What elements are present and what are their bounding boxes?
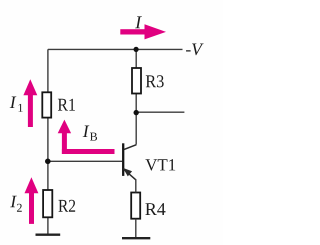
- node top supply junction: [134, 47, 139, 52]
- label VT1: [145, 159, 175, 170]
- label R4: [145, 203, 165, 215]
- power rail label -V: [186, 44, 204, 56]
- wire R3 branch vertical: [135, 49, 137, 144]
- label I: [135, 16, 142, 28]
- node collector junction: [134, 110, 139, 115]
- wire base lead: [48, 160, 122, 162]
- current arrow IB: [58, 120, 115, 154]
- wire collector output: [136, 111, 184, 113]
- node base junction: [45, 159, 51, 165]
- current arrow I: [120, 24, 166, 39]
- current arrow I1: [23, 79, 37, 127]
- ground left: [36, 233, 61, 235]
- label IB: [83, 126, 97, 141]
- resistor R4: [131, 193, 140, 219]
- label R3: [146, 75, 164, 87]
- transistor VT1: [123, 143, 136, 192]
- wire top supply rail: [48, 48, 183, 50]
- label R2: [58, 200, 75, 212]
- resistor R3: [132, 68, 141, 94]
- wire left vertical branch: [47, 49, 49, 233]
- current arrow I2: [25, 177, 39, 224]
- ground right: [122, 219, 150, 239]
- resistor R2: [43, 190, 52, 217]
- resistor R1: [42, 92, 51, 117]
- label I2: [10, 196, 22, 212]
- label R1: [58, 99, 75, 111]
- label I1: [10, 97, 23, 112]
